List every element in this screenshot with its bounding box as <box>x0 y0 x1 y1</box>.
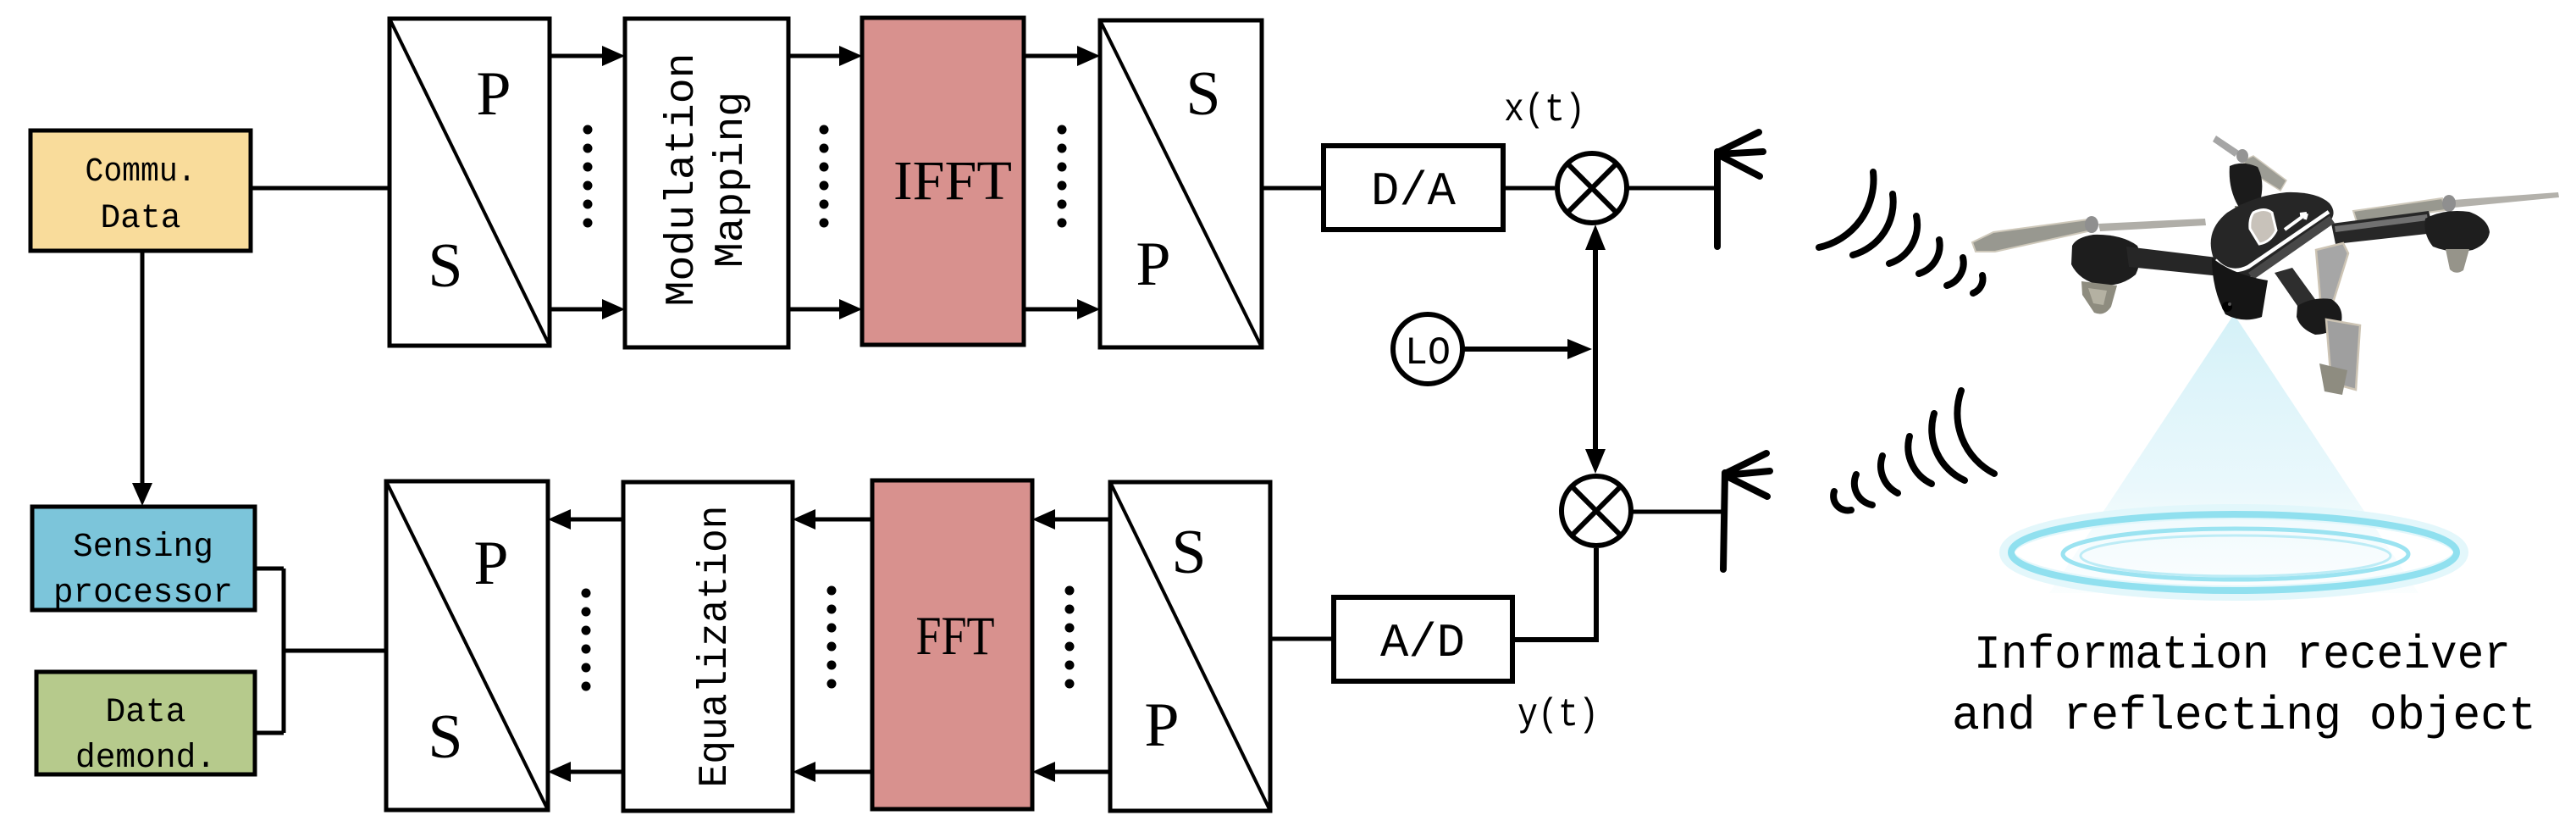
arrow LO to vertical line <box>1462 339 1592 359</box>
wire D/A to mixer M1 <box>1503 186 1555 191</box>
wire S/P to A/D (bottom row) <box>1270 637 1334 641</box>
svg-text:P: P <box>476 59 511 129</box>
svg-text:LO: LO <box>1405 331 1451 375</box>
svg-text:Commu.: Commu. <box>86 153 196 191</box>
svg-text:x(t): x(t) <box>1504 88 1585 132</box>
svg-text:Modulation: Modulation <box>660 53 705 307</box>
white arrow mark <box>2285 214 2307 230</box>
arrow S/P to FFT (top) <box>1032 509 1110 530</box>
svg-text:S: S <box>1186 59 1220 129</box>
svg-text:Equalization: Equalization <box>693 506 738 788</box>
block D/A <box>1324 146 1503 230</box>
dots column between Equalization and FFT <box>827 586 837 689</box>
arrow Equalization to S/P (bottom) <box>548 762 623 782</box>
block Modulation Mapping <box>625 19 788 347</box>
wire/arrow Commu.Data down to Sensing processor <box>132 251 152 506</box>
radar footprint rings <box>2007 512 2461 593</box>
canopy dark band <box>2251 219 2332 276</box>
svg-text:P: P <box>1136 230 1170 299</box>
oscillator LO <box>1393 314 1462 384</box>
arrow S/P to Modulation (bottom) <box>550 299 625 319</box>
block Sensing processor <box>32 507 255 613</box>
antenna A1 <box>1717 132 1763 247</box>
svg-text:Data: Data <box>106 694 186 732</box>
svg-text:S: S <box>428 231 462 301</box>
wave arcs echo (drone to antenna A2) <box>1833 391 1994 510</box>
lower chin <box>2212 258 2268 319</box>
dots column between Modulation and IFFT <box>820 125 829 228</box>
mixer M1 <box>1557 153 1627 223</box>
wave arcs downlink (drone to antenna A1) <box>1819 172 1983 293</box>
block Commu. Data <box>30 130 251 251</box>
wire Commu.Data to S/P <box>251 186 390 191</box>
front-right foot <box>2319 363 2347 395</box>
block A/D <box>1334 597 1512 681</box>
arrow FFT to Equalization (top) <box>793 509 872 530</box>
svg-text:Sensing: Sensing <box>73 529 213 567</box>
svg-text:Data: Data <box>101 200 181 238</box>
block S/P converter U1 <box>390 19 550 346</box>
arrow S/P to FFT (bottom) <box>1032 762 1110 782</box>
rear arm <box>2238 202 2263 225</box>
block Equalization <box>623 482 793 811</box>
canopy white stripe <box>2215 212 2329 270</box>
rear propeller <box>2213 136 2239 157</box>
wire junction to S/P bottom left <box>255 569 386 733</box>
right propeller <box>2353 198 2446 222</box>
dots column between IFFT and P/S <box>1058 125 1067 228</box>
svg-text:processor: processor <box>53 574 233 613</box>
center body canopy <box>2211 192 2334 277</box>
arrow IFFT to P/S (bottom) <box>1024 299 1100 319</box>
svg-text:A/D: A/D <box>1380 616 1465 670</box>
right motor pod <box>2424 211 2490 252</box>
svg-text:S: S <box>1171 518 1206 587</box>
arrow Modulation to IFFT (bottom) <box>788 299 862 319</box>
rear motor pod <box>2230 164 2263 208</box>
dots column between S/P and Equalization (bottom left) <box>582 589 591 691</box>
front-right blade down <box>2326 319 2360 390</box>
svg-text:P: P <box>473 529 508 598</box>
left arm <box>2126 247 2220 276</box>
left motor pod <box>2071 235 2140 286</box>
wire mixer M2 to antenna A2 <box>1631 510 1725 514</box>
arrow Modulation to IFFT (top) <box>788 46 862 66</box>
svg-text:and reflecting object: and reflecting object <box>1952 689 2536 743</box>
svg-text:S: S <box>428 702 462 772</box>
front-right blade up <box>2316 243 2348 302</box>
block P/S converter U2 <box>1100 20 1262 347</box>
block S/P converter U3 (bottom right) <box>1110 482 1270 811</box>
block IFFT <box>862 18 1024 345</box>
drone quadcopter <box>1972 136 2559 395</box>
left propeller <box>1972 219 2092 252</box>
wire/arrow LO vertical down into M2 <box>1585 349 1606 474</box>
mixer M2 <box>1562 476 1631 546</box>
arrow IFFT to P/S (top) <box>1024 46 1100 66</box>
svg-text:D/A: D/A <box>1371 164 1456 219</box>
block FFT <box>872 480 1032 809</box>
svg-text:Information receiver: Information receiver <box>1974 628 2511 682</box>
svg-text:demond.: demond. <box>75 740 216 778</box>
dots column between S/P and Modulation <box>583 125 593 228</box>
svg-text:P: P <box>1144 691 1179 760</box>
arrow FFT to Equalization (bottom) <box>793 762 872 782</box>
canopy window <box>2250 210 2276 245</box>
svg-text:IFFT: IFFT <box>893 150 1012 212</box>
sensing beam cone <box>2049 314 2418 593</box>
arrow S/P to Modulation (top) <box>550 46 625 66</box>
front-right arm <box>2275 268 2328 325</box>
wire A/D up into mixer M2 <box>1512 548 1596 640</box>
antenna A2 <box>1723 453 1770 569</box>
right arm <box>2331 211 2435 244</box>
front-right motor pod <box>2297 298 2342 335</box>
block S/P converter U4 (bottom left) <box>386 481 548 810</box>
svg-text:Mapping: Mapping <box>709 92 755 268</box>
wire P/S to D/A <box>1262 186 1324 191</box>
wire mixer M1 to antenna A1 <box>1627 186 1717 191</box>
dots column between FFT and S/P (bottom) <box>1065 586 1075 689</box>
arrow Equalization to S/P (top) <box>548 509 623 530</box>
svg-text:y(t): y(t) <box>1517 693 1599 737</box>
wire/arrow LO vertical up into M1 <box>1585 225 1606 349</box>
block Data demond. <box>36 672 255 778</box>
svg-text:FFT: FFT <box>916 606 995 667</box>
